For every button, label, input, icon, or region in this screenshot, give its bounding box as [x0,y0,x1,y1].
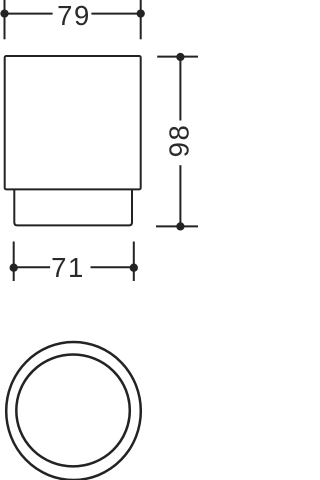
dim 71 left dot [10,264,18,272]
dim 71 right dot [130,264,138,272]
dimension 79: right extension line [140,0,142,39]
dimension 98: line bottom segment [179,165,181,226]
dimension 71: line left segment [14,266,50,268]
dimension 79: line right segment [91,13,140,15]
dimension 71: left extension line [13,242,15,282]
base (front view lower block) [14,189,132,225]
svg-text:71: 71 [51,252,85,283]
dim 79 right dot [137,9,145,17]
dimension 98: bottom extension line [156,225,198,227]
dimension 98: line top segment [179,57,181,121]
dim 98 bottom dot [176,222,184,230]
body rectangle (front view) [5,56,141,189]
dimension 71: line right segment [91,266,134,268]
top view outer circle [6,342,141,480]
dimension 79: left extension line [4,0,6,39]
dimension 98: top extension line [157,56,198,58]
svg-text:98: 98 [164,124,195,158]
dim 79 left dot [0,9,8,17]
svg-text:79: 79 [57,0,91,31]
dimension 79: line left segment [5,13,53,15]
dim 98 top dot [176,53,184,61]
dimension 71: right extension line [133,242,135,282]
top view inner circle [16,355,130,467]
